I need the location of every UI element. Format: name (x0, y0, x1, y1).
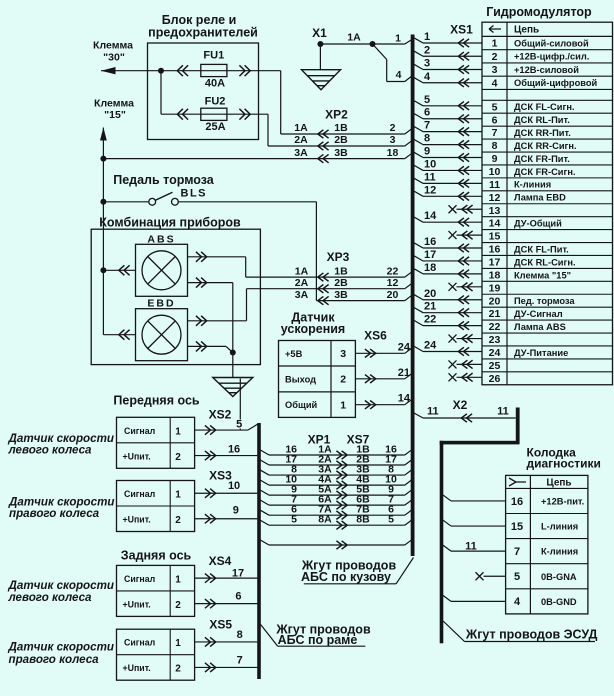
svg-text:правого колеса: правого колеса (9, 653, 100, 666)
svg-text:1: 1 (175, 490, 181, 501)
svg-text:1В: 1В (334, 122, 348, 134)
svg-text:Клемма: Клемма (94, 98, 134, 110)
svg-text:24: 24 (489, 347, 501, 359)
svg-text:2В: 2В (334, 277, 348, 289)
svg-text:EBD: EBD (147, 298, 175, 310)
svg-text:2А: 2А (294, 134, 308, 146)
svg-text:9: 9 (233, 505, 239, 517)
svg-text:10: 10 (424, 158, 436, 170)
svg-text:ДСК FR-Сигн.: ДСК FR-Сигн. (514, 167, 576, 177)
svg-text:10: 10 (489, 166, 501, 178)
svg-text:левого колеса: левого колеса (8, 591, 93, 604)
svg-text:2А: 2А (295, 277, 309, 289)
svg-text:АБС по раме: АБС по раме (278, 633, 358, 647)
svg-text:Лампа EBD: Лампа EBD (514, 193, 566, 203)
svg-text:4: 4 (424, 71, 431, 83)
svg-text:FU1: FU1 (203, 50, 224, 62)
svg-text:Задняя ось: Задняя ось (121, 549, 192, 563)
svg-text:ДСК RR-Пит.: ДСК RR-Пит. (514, 128, 571, 138)
svg-text:23: 23 (489, 334, 501, 346)
svg-text:13: 13 (489, 205, 501, 217)
svg-text:11: 11 (465, 541, 477, 553)
svg-text:X2: X2 (453, 398, 468, 412)
svg-text:15: 15 (489, 231, 501, 243)
svg-text:2В: 2В (334, 134, 348, 146)
svg-text:Передняя ось: Передняя ось (113, 394, 199, 408)
svg-text:К-линия: К-линия (514, 180, 551, 190)
svg-text:3: 3 (424, 58, 430, 70)
svg-text:ускорения: ускорения (281, 322, 345, 336)
svg-text:К-линия: К-линия (541, 547, 578, 557)
svg-text:12: 12 (489, 192, 501, 204)
svg-text:15: 15 (511, 521, 523, 533)
svg-text:2: 2 (175, 452, 181, 463)
svg-text:6: 6 (492, 114, 498, 126)
svg-text:5: 5 (514, 571, 520, 583)
svg-text:XS4: XS4 (209, 554, 232, 568)
svg-text:14: 14 (398, 393, 411, 405)
svg-text:18: 18 (489, 269, 501, 281)
svg-text:7: 7 (424, 120, 430, 132)
svg-text:1: 1 (340, 399, 346, 411)
svg-text:5: 5 (236, 418, 242, 430)
svg-text:0В-GND: 0В-GND (541, 597, 577, 607)
svg-text:18: 18 (387, 147, 399, 159)
svg-text:21: 21 (424, 301, 436, 313)
svg-text:3: 3 (340, 348, 346, 360)
svg-text:8: 8 (492, 140, 498, 152)
svg-text:2: 2 (175, 600, 181, 611)
svg-text:21: 21 (398, 367, 410, 379)
svg-text:2: 2 (492, 51, 498, 63)
svg-text:8В: 8В (356, 514, 370, 526)
svg-text:+5В: +5В (285, 349, 303, 359)
svg-text:17: 17 (489, 257, 501, 269)
svg-text:+Uпит.: +Uпит. (123, 663, 151, 673)
svg-text:11: 11 (489, 179, 500, 191)
svg-text:1: 1 (395, 33, 401, 45)
svg-text:11: 11 (427, 405, 439, 417)
svg-text:ДСК RL-Пит.: ДСК RL-Пит. (514, 115, 570, 125)
svg-text:АБС по кузову: АБС по кузову (301, 570, 391, 584)
svg-text:11: 11 (497, 406, 509, 418)
svg-text:XS1: XS1 (450, 23, 473, 37)
svg-text:1: 1 (424, 31, 430, 43)
svg-text:правого колеса: правого колеса (9, 507, 100, 520)
svg-text:ДСК RR-Сигн.: ДСК RR-Сигн. (514, 141, 577, 151)
svg-text:1А: 1А (294, 122, 308, 134)
svg-text:Общий: Общий (285, 400, 318, 410)
svg-text:Гидромодулятор: Гидромодулятор (486, 5, 592, 19)
svg-text:1А: 1А (295, 265, 309, 277)
svg-text:BLS: BLS (181, 188, 208, 200)
svg-text:1: 1 (175, 638, 181, 649)
svg-text:6: 6 (424, 107, 430, 119)
svg-text:7: 7 (514, 546, 520, 558)
svg-text:диагностики: диагностики (527, 457, 601, 471)
svg-text:19: 19 (489, 282, 501, 294)
svg-text:Жгут проводов ЭСУД: Жгут проводов ЭСУД (465, 628, 598, 642)
svg-text:22: 22 (424, 314, 436, 326)
svg-text:Пед. тормоза: Пед. тормоза (514, 296, 575, 306)
svg-text:+12В-цифр./сил.: +12В-цифр./сил. (514, 52, 589, 62)
svg-text:20: 20 (387, 289, 399, 301)
svg-text:Сигнал: Сигнал (124, 574, 155, 584)
svg-text:24: 24 (424, 339, 437, 351)
svg-text:X1: X1 (312, 26, 327, 40)
svg-text:6: 6 (235, 590, 241, 602)
svg-text:Общий-силовой: Общий-силовой (514, 38, 589, 48)
svg-text:9: 9 (424, 146, 430, 158)
svg-text:1А: 1А (347, 32, 361, 44)
svg-text:XP3: XP3 (327, 250, 350, 264)
svg-text:14: 14 (489, 218, 501, 230)
svg-text:Датчик скорости: Датчик скорости (8, 579, 114, 592)
svg-text:0В-GNA: 0В-GNA (541, 572, 577, 582)
svg-text:Цепь: Цепь (546, 478, 571, 489)
svg-text:21: 21 (489, 308, 501, 320)
svg-text:"30": "30" (103, 51, 125, 63)
svg-text:40А: 40А (205, 77, 225, 89)
svg-text:ДУ-Общий: ДУ-Общий (514, 219, 562, 229)
svg-text:1: 1 (175, 426, 181, 437)
svg-text:2: 2 (175, 515, 181, 526)
svg-text:Датчик скорости: Датчик скорости (8, 641, 114, 654)
svg-text:1В: 1В (334, 265, 348, 277)
svg-text:22: 22 (489, 321, 501, 333)
svg-text:Комбинация приборов: Комбинация приборов (99, 216, 241, 230)
svg-text:12: 12 (387, 277, 399, 289)
svg-text:XS5: XS5 (209, 618, 232, 632)
svg-text:20: 20 (424, 288, 436, 300)
svg-text:XS2: XS2 (209, 407, 232, 421)
svg-text:16: 16 (489, 244, 501, 256)
svg-text:FU2: FU2 (205, 95, 226, 107)
svg-text:левого колеса: левого колеса (8, 444, 93, 457)
svg-text:XS6: XS6 (364, 329, 387, 343)
svg-text:8: 8 (237, 629, 243, 641)
svg-text:11: 11 (424, 171, 436, 183)
svg-text:+12В-пит.: +12В-пит. (541, 496, 584, 506)
svg-text:7: 7 (492, 127, 498, 139)
svg-text:Лампа ABS: Лампа ABS (514, 322, 566, 332)
svg-text:9: 9 (492, 153, 498, 165)
svg-text:3: 3 (390, 134, 396, 146)
svg-text:25: 25 (489, 360, 501, 372)
svg-text:+Uпит.: +Uпит. (123, 451, 151, 461)
svg-text:ДСК FL-Пит.: ДСК FL-Пит. (514, 244, 569, 254)
svg-text:ДСК FR-Пит.: ДСК FR-Пит. (514, 154, 570, 164)
svg-text:16: 16 (424, 236, 436, 248)
svg-text:5: 5 (492, 101, 498, 113)
svg-text:5: 5 (388, 514, 394, 526)
svg-text:1: 1 (492, 38, 498, 50)
svg-text:+Uпит.: +Uпит. (123, 599, 151, 609)
svg-text:3В: 3В (334, 147, 348, 159)
svg-text:XP2: XP2 (325, 108, 348, 122)
svg-text:20: 20 (489, 295, 501, 307)
svg-text:Сигнал: Сигнал (124, 426, 155, 436)
svg-text:Педаль тормоза: Педаль тормоза (113, 173, 215, 187)
svg-text:8А: 8А (318, 514, 332, 526)
svg-text:2: 2 (390, 122, 396, 134)
svg-text:Сигнал: Сигнал (124, 638, 155, 648)
svg-text:12: 12 (424, 184, 436, 196)
svg-text:22: 22 (387, 265, 399, 277)
svg-text:Клемма "15": Клемма "15" (514, 270, 571, 280)
svg-text:5: 5 (424, 94, 430, 106)
svg-text:1: 1 (175, 574, 181, 585)
svg-text:предохранителей: предохранителей (148, 26, 258, 40)
svg-text:24: 24 (398, 341, 411, 353)
svg-text:3В: 3В (334, 289, 348, 301)
svg-text:ABS: ABS (147, 233, 175, 245)
svg-text:10: 10 (228, 480, 240, 492)
svg-text:17: 17 (424, 249, 436, 261)
svg-text:ДУ-Сигнал: ДУ-Сигнал (514, 309, 563, 319)
svg-text:17: 17 (232, 567, 244, 579)
svg-text:16: 16 (511, 496, 523, 508)
svg-text:25А: 25А (205, 121, 225, 133)
svg-text:Выход: Выход (285, 374, 316, 384)
svg-text:ДУ-Питание: ДУ-Питание (514, 348, 568, 358)
svg-text:26: 26 (489, 373, 501, 385)
svg-text:8: 8 (424, 133, 430, 145)
svg-text:ДСК RL-Сигн.: ДСК RL-Сигн. (514, 257, 576, 267)
svg-text:5: 5 (291, 514, 297, 526)
svg-text:4: 4 (396, 69, 402, 81)
svg-text:18: 18 (424, 262, 436, 274)
svg-text:2: 2 (175, 664, 181, 675)
svg-text:3А: 3А (294, 147, 308, 159)
svg-text:"15": "15" (104, 109, 126, 121)
svg-text:2: 2 (340, 374, 346, 386)
svg-text:L-линия: L-линия (541, 522, 578, 532)
svg-text:Клемма: Клемма (93, 40, 133, 52)
svg-text:Цепь: Цепь (514, 25, 539, 36)
svg-text:3: 3 (492, 64, 498, 76)
svg-text:ДСК FL-Сигн.: ДСК FL-Сигн. (514, 102, 575, 112)
svg-text:Общий-цифровой: Общий-цифровой (514, 78, 598, 88)
svg-text:16: 16 (228, 443, 240, 455)
svg-text:2: 2 (424, 44, 430, 56)
svg-text:+Uпит.: +Uпит. (123, 515, 151, 525)
svg-text:4: 4 (492, 77, 498, 89)
svg-text:3А: 3А (295, 289, 309, 301)
svg-text:+12В-силовой: +12В-силовой (514, 65, 579, 75)
svg-text:7: 7 (237, 655, 243, 667)
svg-text:4: 4 (514, 596, 521, 608)
svg-text:14: 14 (424, 210, 437, 222)
svg-text:Сигнал: Сигнал (124, 489, 155, 499)
